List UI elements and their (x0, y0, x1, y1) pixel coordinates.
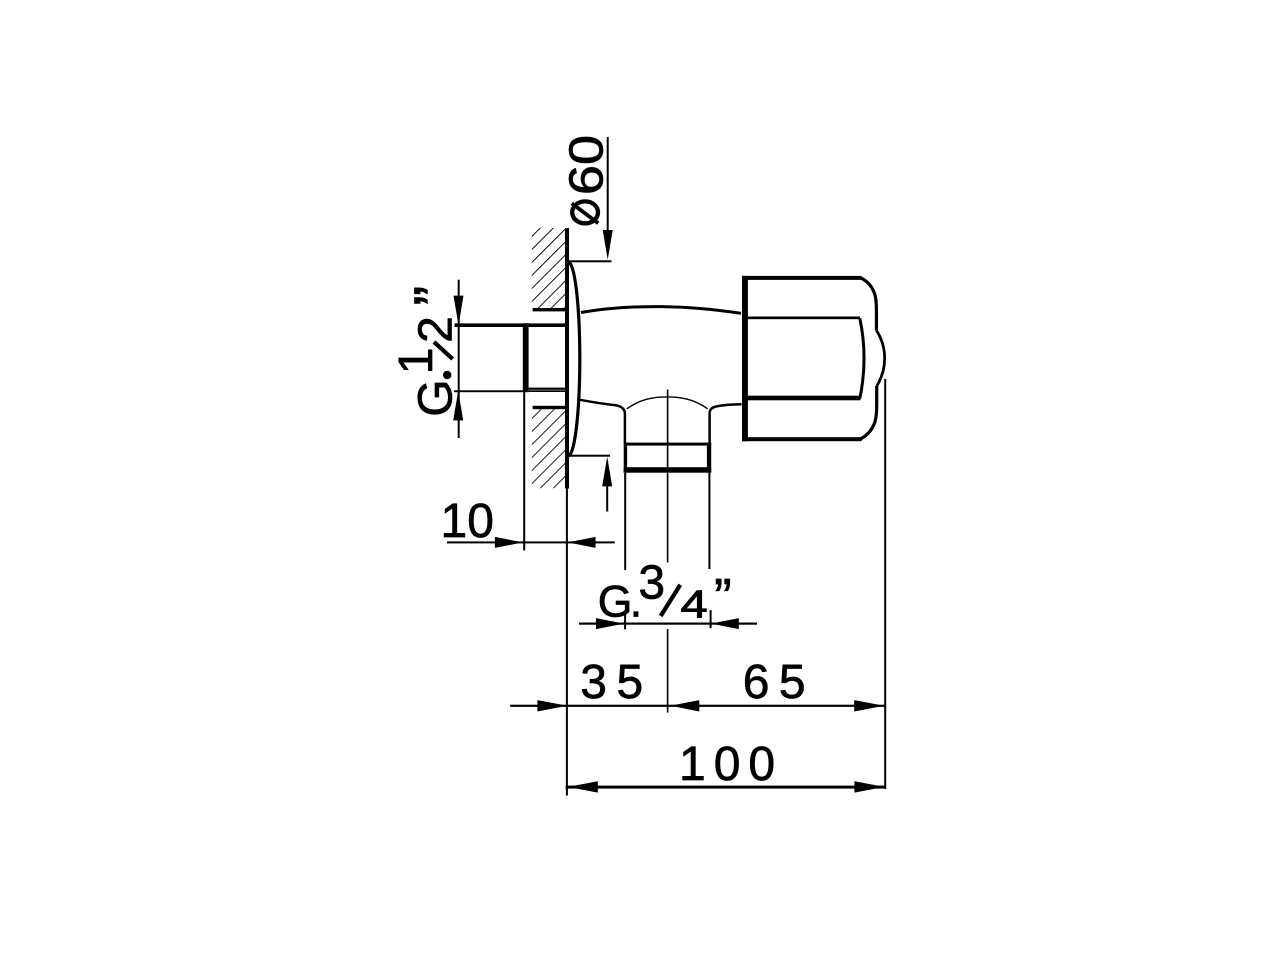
G3/4 thread collar bottom edge (624, 467, 712, 473)
svg-text:”: ” (403, 286, 467, 306)
G3/4 dimension line (579, 623, 757, 625)
dia60 bottom extension line (568, 455, 610, 457)
10 arrow left (568, 537, 596, 548)
svg-text:35: 35 (580, 656, 652, 709)
dia60 label digits (560, 135, 613, 195)
wall face line (565, 228, 569, 489)
dia60 arrow up tail (606, 486, 608, 512)
svg-text:1: 1 (390, 347, 443, 374)
G1/2 label fraction slash (434, 342, 453, 359)
G1/2 dimension line (458, 280, 460, 438)
35 arrow right (537, 700, 567, 711)
svg-text:3: 3 (638, 557, 665, 610)
dia60 top extension line (566, 260, 612, 262)
65 arrow left (670, 700, 699, 711)
wall hole lower edge (533, 406, 569, 409)
wall face extension line down (566, 489, 568, 796)
hex nut facet line upper (743, 317, 860, 320)
G1/2 inlet nipple bottom edge (529, 390, 567, 392)
G1/2 arrow down (454, 296, 464, 326)
hex nut left edge (742, 276, 748, 441)
10 extension line (523, 392, 525, 551)
100 arrow right (854, 781, 884, 792)
G1/2 inlet nipple left edge (523, 323, 529, 392)
svg-text:65: 65 (743, 656, 815, 709)
10 dimension line (447, 541, 615, 543)
G1/2 inlet nipple thread root line (529, 388, 565, 390)
hex nut middle facet right arc (860, 318, 864, 398)
svg-text:10: 10 (441, 495, 494, 548)
dia60 arrow down (603, 230, 613, 260)
wall flange dome (568, 262, 580, 456)
G3/4 extension line right (708, 473, 710, 569)
G1/2 bottom extension line (454, 390, 529, 392)
outlet centerline lower segment (667, 629, 669, 713)
100 dimension line (566, 786, 886, 789)
10 arrow right (495, 537, 523, 548)
G3/4 arrow right (596, 618, 624, 629)
svg-text:G: G (410, 379, 463, 416)
G3/4 thread collar left edge (624, 443, 627, 473)
G3/4 tick right (710, 610, 712, 628)
ball end arc (876, 330, 884, 386)
body silhouette over outlet (627, 397, 708, 409)
hex nut bottom edge (742, 437, 862, 441)
G3/4 thread collar right edge (707, 443, 711, 473)
hex nut bottom chamfer (861, 386, 877, 439)
right extension line (884, 379, 886, 789)
svg-text:4: 4 (681, 583, 708, 626)
svg-text:”: ” (714, 569, 732, 628)
wall hatching upper block (532, 228, 566, 308)
G3/4 arrow left (711, 618, 739, 629)
35-65 dimension line (510, 705, 885, 707)
100 arrow left (568, 781, 598, 792)
valve body bottom profile left / outlet neck left (580, 400, 625, 444)
hex nut top chamfer (861, 278, 877, 331)
G3/4 tick left (624, 613, 626, 629)
G1/2 arrow up (453, 391, 463, 421)
G1/2 label dot (443, 371, 451, 379)
G1/2 inlet nipple top edge (455, 323, 567, 327)
dia60 dimension line (607, 137, 609, 232)
wall hole upper edge (533, 308, 569, 311)
svg-text:60: 60 (560, 135, 613, 195)
G3/4 thread collar top line (624, 443, 711, 446)
valve body top profile (581, 307, 741, 314)
G3/4 extension line left (624, 473, 626, 570)
svg-text:G: G (598, 578, 633, 627)
hex nut facet line lower (743, 396, 861, 401)
svg-text:2: 2 (410, 316, 463, 343)
wall hatching lower block (532, 409, 565, 488)
G3/4 label (598, 557, 732, 628)
valve body bottom profile right / outlet neck right (710, 404, 742, 443)
hex nut top edge (742, 276, 862, 280)
G3/4 label fraction slash (661, 585, 681, 616)
svg-text:100: 100 (679, 738, 783, 791)
65 arrow right (854, 700, 884, 711)
outlet centerline upper segment (667, 390, 669, 563)
dia60 arrow up (602, 457, 612, 487)
G1/2 label (390, 286, 467, 417)
dia60 label diameter symbol (572, 201, 598, 223)
